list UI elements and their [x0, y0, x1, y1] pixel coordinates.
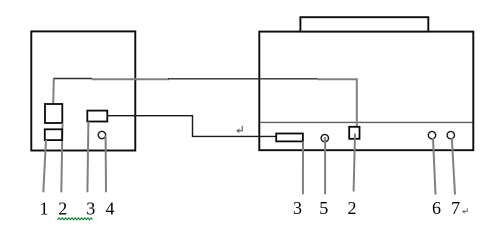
wire: gray drop from horizontal run into terminal block upper: [52, 78, 55, 104]
lead 7: [452, 138, 455, 195]
svg-text:5: 5: [319, 198, 328, 218]
wire: black run from socket in left box to socket 3 in right box: [107, 116, 276, 137]
lead 3: [87, 122, 88, 193]
lead 1: [43, 140, 46, 192]
wire: gray segment mid-left: [92, 78, 170, 80]
jack 7 (right box circle): [447, 131, 454, 138]
lead 5: [324, 137, 326, 194]
svg-text:6: 6: [432, 198, 441, 218]
wire: dark thin segment left: [54, 78, 92, 80]
jack 4 (left box circle): [98, 131, 105, 138]
right device box: [259, 32, 473, 151]
svg-text:4: 4: [106, 199, 115, 219]
wire: gray segment right: [318, 78, 358, 80]
terminal block upper (left box, feeds lead 2): [45, 104, 62, 123]
lead 3 right: [302, 141, 304, 194]
svg-text:2: 2: [348, 198, 357, 218]
svg-text:3: 3: [86, 199, 95, 219]
svg-text:7: 7: [451, 198, 460, 218]
return mark after label 7: [462, 208, 467, 213]
wire: dark thin segment mid: [168, 78, 318, 80]
left device box: [31, 31, 135, 150]
right device panel line: [260, 121, 472, 123]
port 2 square (right box): [349, 127, 359, 139]
jack 6 (right box circle): [428, 131, 435, 138]
lead 2: [61, 123, 62, 192]
lead 4: [105, 135, 107, 192]
svg-text:2: 2: [58, 199, 67, 219]
jack 5 (right box circle): [321, 134, 328, 141]
socket 3 (right box): [276, 134, 303, 142]
connector socket (left box, feeds lead 3): [87, 111, 107, 122]
svg-text:1: 1: [40, 199, 49, 219]
right device top handle: [300, 17, 428, 31]
svg-text:3: 3: [293, 198, 302, 218]
lead 2 right: [354, 134, 355, 192]
green squiggle underline under labels 2-3: [58, 218, 93, 220]
return mark mid (line-break pilcrow): [236, 126, 242, 134]
terminal block lower (left box, feeds lead 1): [45, 129, 62, 140]
lead 6: [433, 138, 436, 195]
wire: gray drop to port 2 square: [356, 78, 358, 126]
